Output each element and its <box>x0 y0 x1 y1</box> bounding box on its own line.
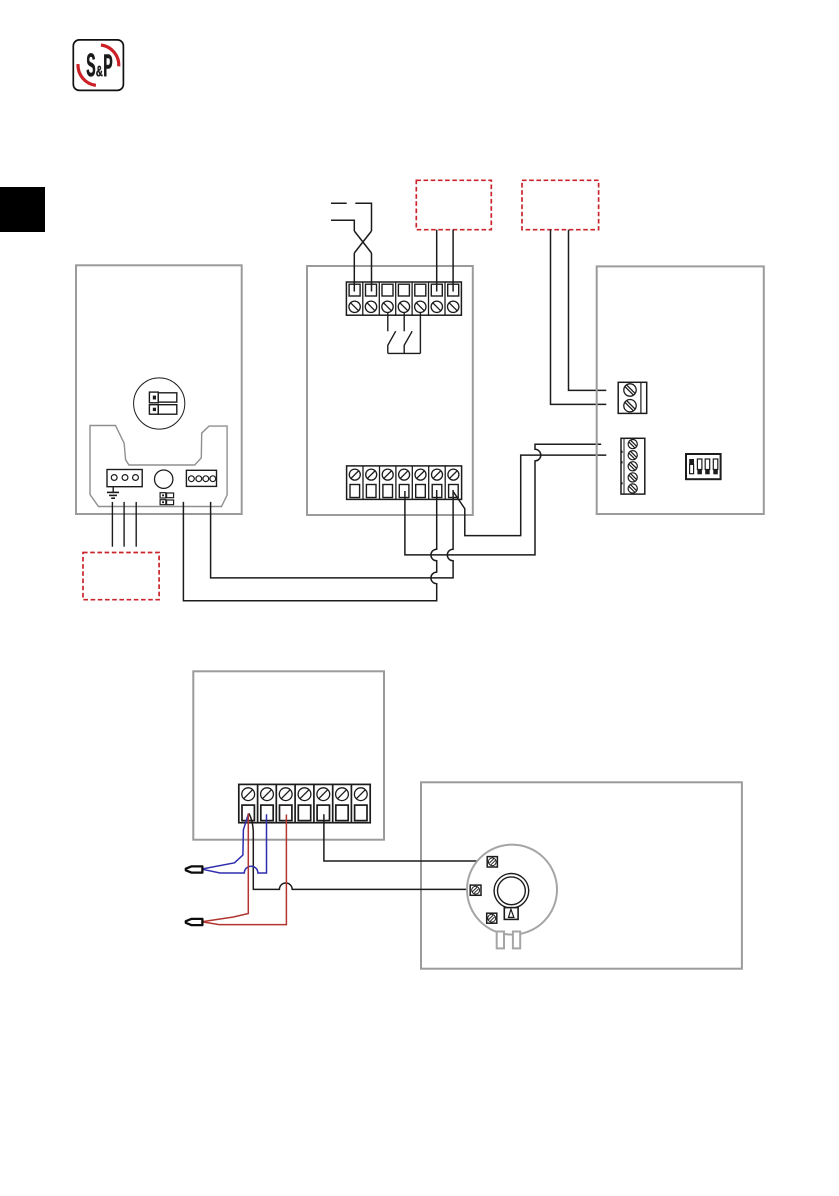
jumper JP4 <box>160 500 174 505</box>
wire: into TS1-2 <box>371 253 373 292</box>
terminal block X4 (5-pole) <box>621 438 645 494</box>
dashed box (external switch input) <box>416 180 491 229</box>
wire: TS3-3 to ferrule (red) <box>202 815 287 925</box>
ferrule terminal (red pair) <box>186 919 203 925</box>
fan control board U3 (right box) <box>597 266 764 514</box>
S&P logo <box>73 40 123 91</box>
terminal block X3 (2-pole) <box>618 382 647 413</box>
motor leg right <box>513 932 520 949</box>
switch S2 (NO contact) <box>404 313 412 354</box>
jumper JP1 <box>149 392 176 403</box>
controller unit U1 (left box) <box>76 265 242 514</box>
wire: dashed box to TS1-6 <box>436 230 438 292</box>
wire: TS3-2 to ferrule (blue) <box>202 814 267 873</box>
wire: twisted pair crossover <box>354 231 371 253</box>
push button <box>155 470 173 488</box>
jumper JP3 <box>160 493 174 498</box>
wire: sensor box to right box upper screw <box>569 230 607 391</box>
dashed box (mains supply) <box>83 553 159 600</box>
jumper detail circle <box>134 378 185 429</box>
sensor unit U2 (middle box) <box>307 266 473 515</box>
wire: TS1-5 common <box>419 313 421 354</box>
motor M1 body <box>467 845 557 935</box>
terminal strip TS1 (7-pole) <box>346 282 461 315</box>
section tab marker <box>0 187 45 232</box>
ferrule terminal (blue pair) <box>186 866 203 872</box>
fan housing box <box>421 782 742 968</box>
wire: TS3-1 to motor terminal B (black) <box>249 813 470 889</box>
wire: TS2-4 to right box (terminal 1) <box>405 444 601 555</box>
terminal block X1 (3-pole) <box>107 470 142 487</box>
wire: TS3-1 to ferrule (red) <box>202 813 249 921</box>
terminal strip TS2 (7-pole) <box>347 466 462 500</box>
motor terminal A <box>487 857 497 867</box>
wire: into TS1-1 <box>353 253 355 292</box>
switch S1 (NO contact) <box>388 313 396 354</box>
wire: sensor box to right box lower screw <box>551 230 607 405</box>
wire: external lead 2 (broken) <box>331 220 354 231</box>
wire: U1 earth to mains box <box>111 502 113 547</box>
motor leg left <box>497 932 504 949</box>
control unit box (bottom diagram) <box>193 671 384 839</box>
wire: TS2-7 to U1 X2 <box>211 490 454 578</box>
terminal strip TS3 (7-pole) <box>239 784 370 822</box>
ground symbol <box>107 487 119 499</box>
jumper JP2 <box>149 405 176 415</box>
wire: dashed box to TS1-7 <box>452 230 454 292</box>
dashed box (external sensor input) <box>522 180 599 229</box>
motor terminal B <box>470 885 481 895</box>
DIP switch SW1 <box>686 454 721 479</box>
PCB outline <box>90 426 227 507</box>
motor indicator <box>504 908 518 920</box>
wire: TS2-6 to U1 X2 <box>183 490 436 601</box>
motor knob <box>494 874 529 909</box>
wire: U1 L to mains box <box>135 502 137 547</box>
wire: TS2-7 tap to right box (terminal 2) <box>454 455 607 535</box>
wire: TS3-1 to ferrule (blue) <box>202 813 249 869</box>
wire: TS3-5 to motor terminal A (black) <box>324 814 487 861</box>
wire: external lead 1 (broken) <box>331 203 372 231</box>
terminal block X2 (4-pole) <box>186 470 216 486</box>
wire: U1 N to mains box <box>123 502 125 547</box>
wire: switch common bus <box>388 352 421 354</box>
motor terminal C <box>487 913 497 923</box>
